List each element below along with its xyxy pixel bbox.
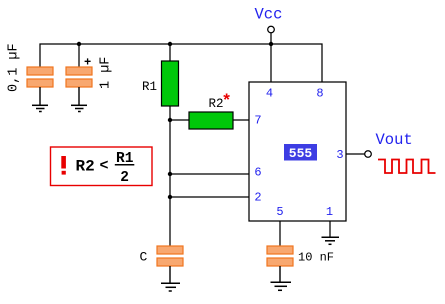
svg-text:Vout: Vout xyxy=(376,131,413,149)
capacitor C1 0,1uF plates xyxy=(27,67,53,87)
capacitor 10nF plates xyxy=(267,246,293,266)
formula note box xyxy=(51,147,153,186)
svg-text:R2: R2 xyxy=(76,158,95,176)
wire R1 bottom to C vertical xyxy=(169,106,171,246)
formula fraction bar xyxy=(115,164,135,166)
ground pin 1 xyxy=(322,237,340,244)
svg-text:+: + xyxy=(84,56,91,70)
svg-text:0,1 µF: 0,1 µF xyxy=(7,43,22,92)
555 value box xyxy=(284,144,317,161)
Vout terminal circle xyxy=(365,151,372,158)
svg-text:R1: R1 xyxy=(142,80,157,94)
wire R2 right to pin 7 xyxy=(233,119,249,121)
node junction R1/rail xyxy=(168,42,172,46)
node junction Vcc/pin4 xyxy=(269,42,273,46)
svg-text:6: 6 xyxy=(254,166,261,180)
svg-text:C: C xyxy=(140,250,148,265)
wire pin 5 down xyxy=(279,221,281,246)
svg-text:*: * xyxy=(222,93,232,112)
wire pin 1 down xyxy=(329,221,331,237)
ground below 10nF xyxy=(271,266,292,290)
svg-text:Vcc: Vcc xyxy=(255,6,283,24)
wire Vcc terminal xyxy=(270,33,272,44)
svg-text:7: 7 xyxy=(254,114,261,128)
wire R2 left xyxy=(170,119,189,121)
wire top rail Vcc xyxy=(40,44,322,82)
capacitor C2 1uF plates xyxy=(66,67,92,87)
wire R1 top drop xyxy=(169,44,171,61)
node junction R2 branch xyxy=(168,118,172,122)
node junction pin2 branch xyxy=(168,195,172,199)
svg-text:1: 1 xyxy=(326,205,333,219)
ground below C2 xyxy=(71,87,87,112)
svg-text:555: 555 xyxy=(289,146,313,161)
ground below C xyxy=(161,266,180,291)
svg-text:<: < xyxy=(100,158,109,175)
wire to pin 6 xyxy=(170,173,249,175)
svg-text:5: 5 xyxy=(276,205,283,219)
resistor R1 xyxy=(162,61,179,106)
ground below C1 xyxy=(32,87,48,112)
svg-text:4: 4 xyxy=(266,87,273,101)
formula exclamation xyxy=(61,156,66,175)
Vcc terminal circle xyxy=(268,26,275,33)
svg-text:3: 3 xyxy=(336,148,343,162)
wire pin4 drop xyxy=(270,44,272,82)
square wave symbol xyxy=(378,160,436,174)
wire pin 3 output xyxy=(346,153,365,155)
capacitor C plates xyxy=(157,246,183,266)
svg-text:1 µF: 1 µF xyxy=(99,57,114,89)
op-amp U1 555 IC body xyxy=(249,82,346,221)
svg-text:2: 2 xyxy=(254,191,261,205)
node junction cap2/rail xyxy=(77,42,81,46)
resistor R2 xyxy=(189,112,233,129)
svg-text:8: 8 xyxy=(316,87,323,101)
node junction pin6 branch xyxy=(168,172,172,176)
wire to pin 2 xyxy=(170,196,249,198)
svg-text:10 nF: 10 nF xyxy=(298,251,334,265)
svg-text:2: 2 xyxy=(120,170,129,186)
wire cap2 drop xyxy=(78,44,80,67)
